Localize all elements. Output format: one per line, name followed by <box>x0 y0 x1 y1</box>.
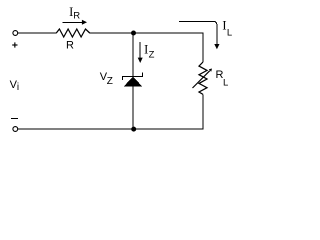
wire top-middle <box>90 32 133 34</box>
junction node A <box>131 31 136 36</box>
wire right vertical lower <box>202 94 204 129</box>
wire bottom left <box>18 128 134 130</box>
wire right vertical upper <box>202 33 204 63</box>
svg-text:R: R <box>73 11 80 22</box>
wire bottom right <box>134 128 204 130</box>
variable arrow across RL <box>193 69 213 89</box>
resistor R <box>56 29 89 37</box>
svg-text:L: L <box>227 28 232 39</box>
wire top-right <box>133 32 204 34</box>
terminal plus (input top) <box>13 31 18 36</box>
current arrow IL <box>179 22 220 50</box>
svg-text:L: L <box>223 77 228 88</box>
zener branch wire lower <box>132 86 134 129</box>
current arrow IR <box>63 20 88 25</box>
resistor RL <box>199 62 207 94</box>
zener diode VZ <box>123 72 143 86</box>
svg-text:Z: Z <box>149 49 155 60</box>
svg-text:i: i <box>17 82 19 93</box>
minus sign <box>11 118 18 120</box>
svg-text:Z: Z <box>107 76 113 87</box>
zener branch wire upper <box>132 33 134 76</box>
terminal minus (input bottom) <box>13 127 18 132</box>
current arrow IZ <box>138 42 143 63</box>
svg-text:R: R <box>66 40 74 52</box>
wire top-left <box>18 32 57 34</box>
plus sign <box>12 42 17 47</box>
junction node B <box>131 127 136 132</box>
